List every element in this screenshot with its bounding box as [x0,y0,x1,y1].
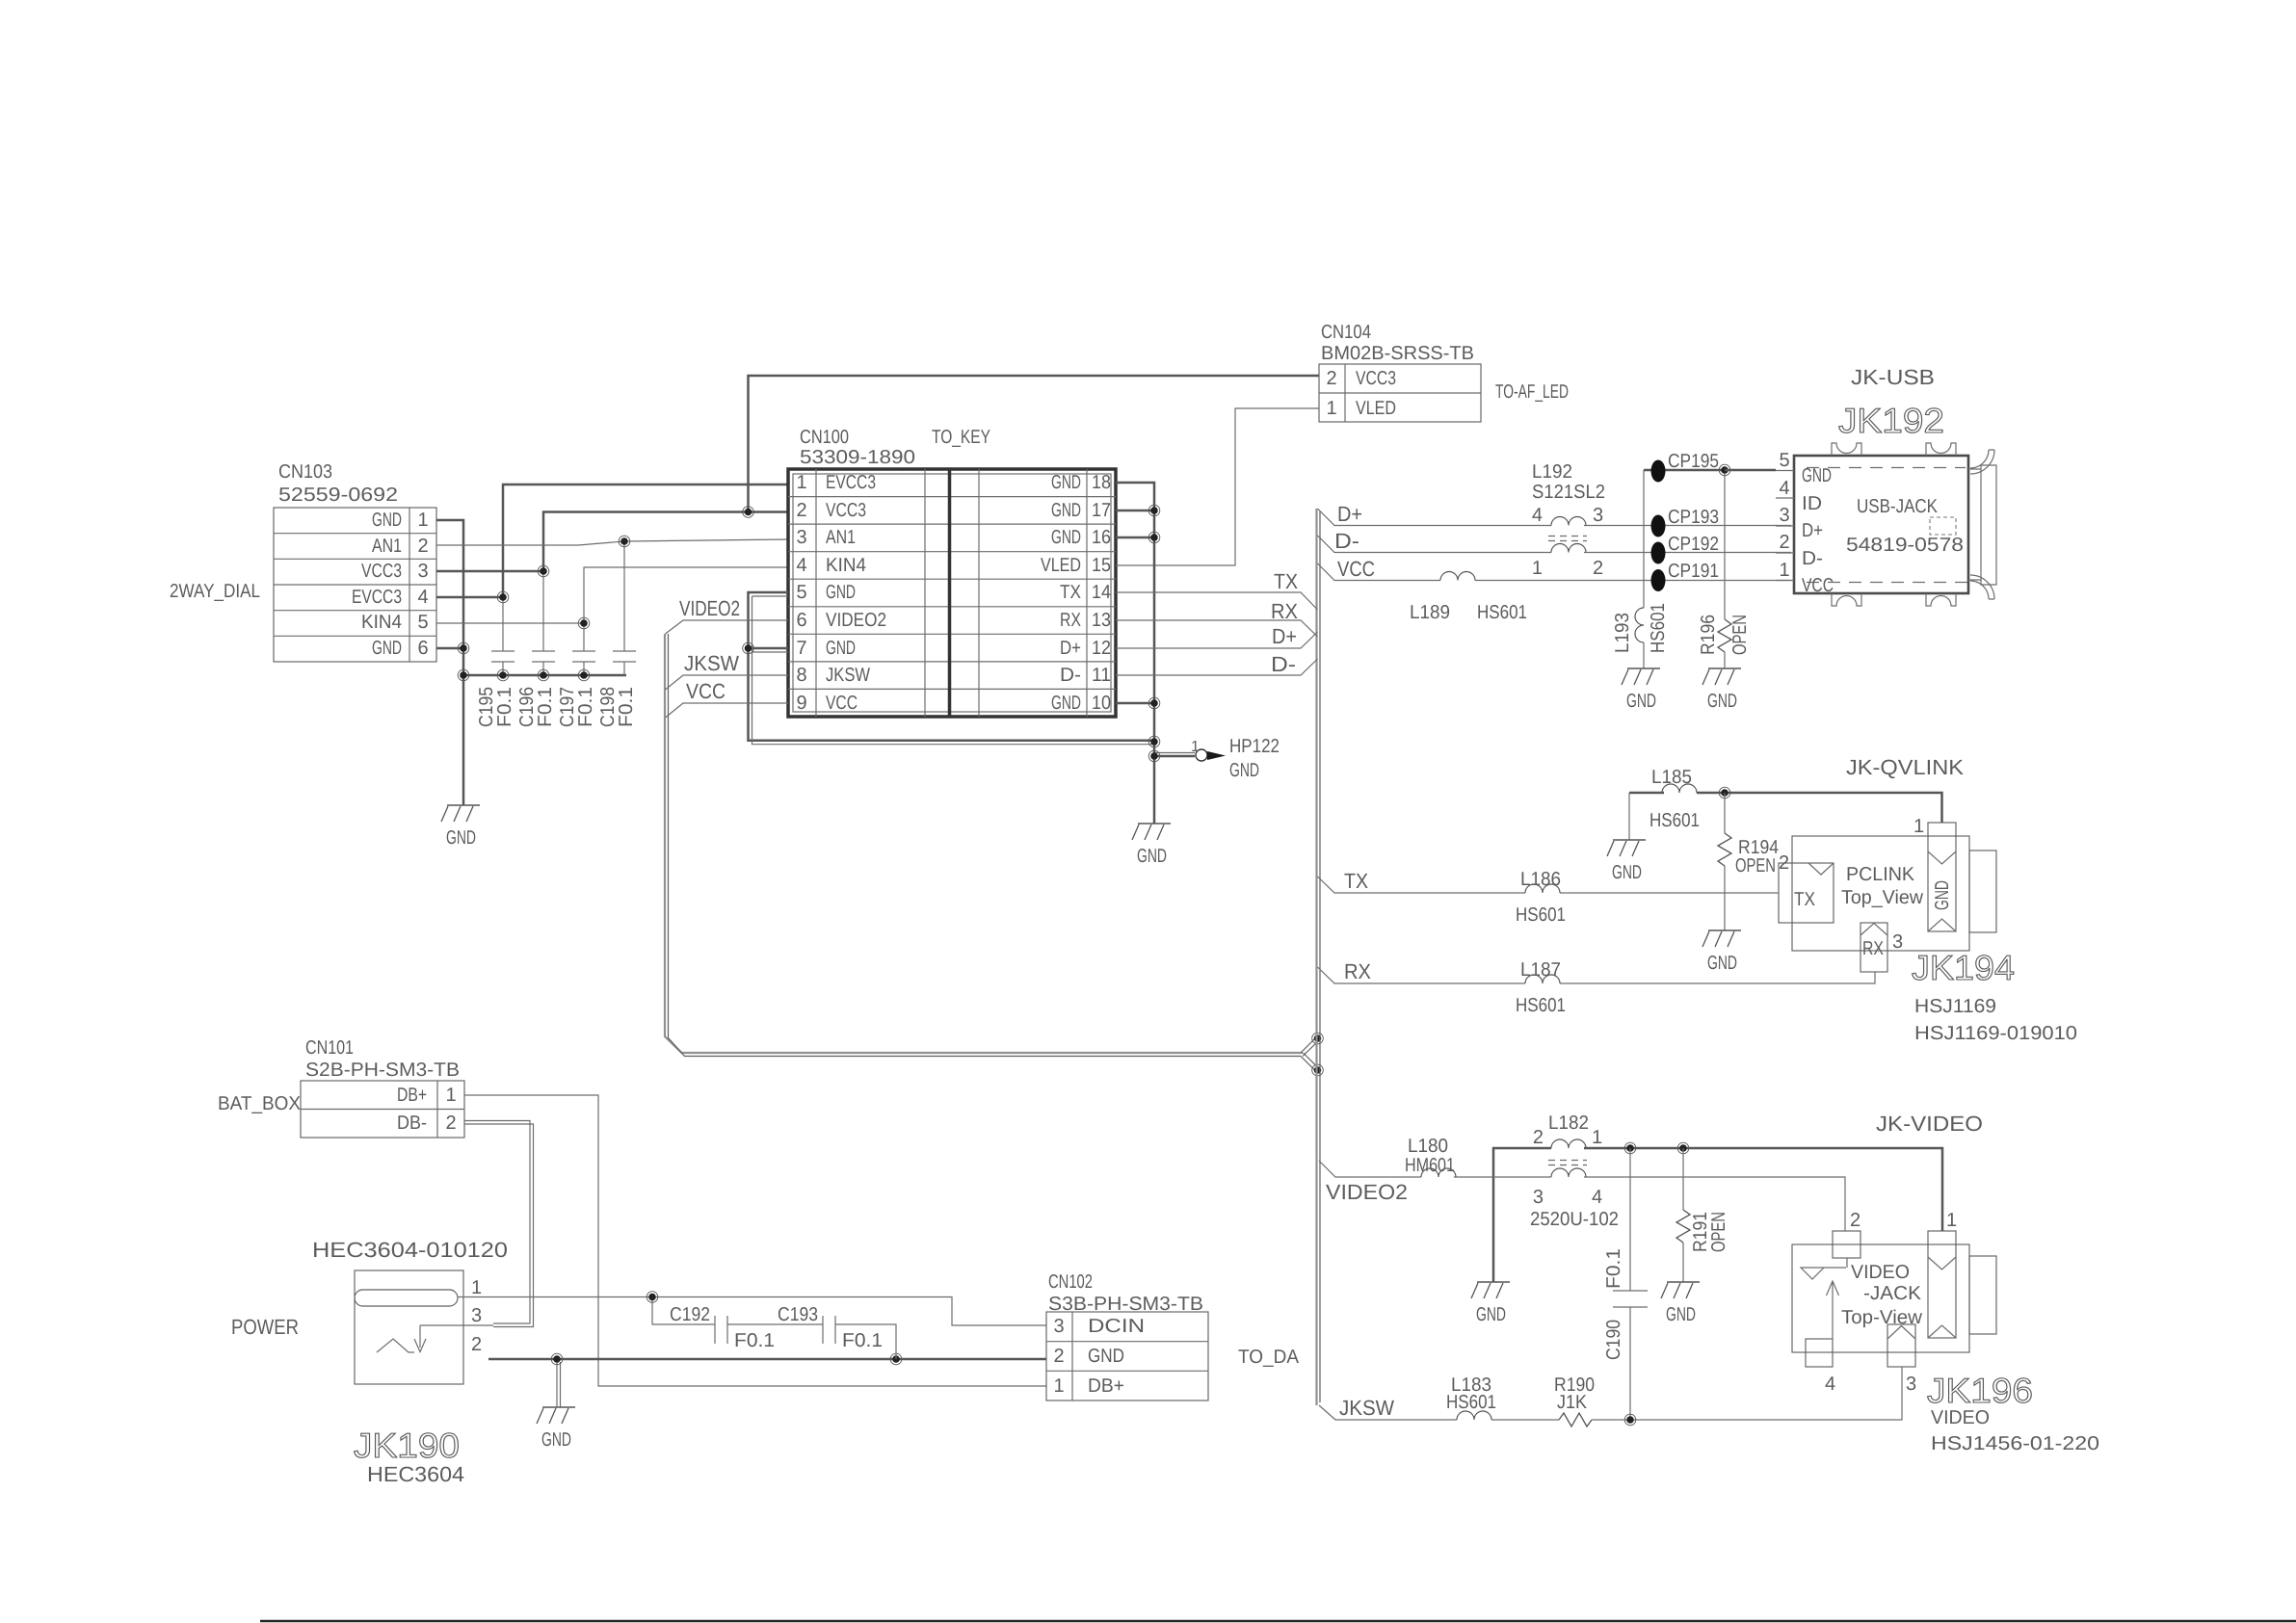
svg-text:VCC3: VCC3 [361,561,402,582]
svg-text:L186: L186 [1520,869,1561,890]
svg-text:CN103: CN103 [278,461,332,483]
svg-text:2: 2 [1326,368,1336,389]
svg-text:2: 2 [445,1113,456,1134]
svg-text:HSJ1169-019010: HSJ1169-019010 [1914,1023,2077,1044]
svg-text:VLED: VLED [1356,398,1396,419]
svg-text:3: 3 [471,1305,482,1326]
svg-text:L189: L189 [1410,602,1450,623]
svg-text:53309-1890: 53309-1890 [800,447,915,468]
svg-text:1: 1 [1592,1127,1602,1148]
wire AN1 CN103.2 to CN100.3 [436,539,788,545]
svg-text:DCIN: DCIN [1088,1316,1145,1337]
junction dots left area [458,536,630,681]
svg-text:C192: C192 [670,1304,710,1325]
svg-text:D+: D+ [1337,502,1362,526]
svg-text:6: 6 [796,610,806,631]
svg-text:3: 3 [1779,505,1789,526]
svg-text:L192: L192 [1532,461,1572,483]
svg-text:HSJ1169: HSJ1169 [1914,996,1996,1017]
svg-text:VCC3: VCC3 [1356,368,1396,389]
inductor L187 HS601 [1516,959,1566,1016]
ground GND below L193 [1622,668,1660,712]
svg-text:1: 1 [1779,560,1789,581]
wire D+ CN100.12 to bus [1116,624,1318,648]
svg-text:1: 1 [1191,739,1200,755]
svg-text:EVCC3: EVCC3 [826,472,876,493]
node JKSW at CN100 pin8 [666,651,789,690]
connector JK190 HEC3604 power jack [231,1238,508,1486]
wire GND loop CN100 pins 5,7 around table bottom [743,592,1160,747]
svg-text:F0.1: F0.1 [494,687,515,727]
svg-text:HEC3604: HEC3604 [367,1462,464,1486]
resistor R194 OPEN [1718,793,1779,930]
connector JK192 USB jack 54819-0578 [1776,365,1996,606]
svg-text:16: 16 [1092,527,1111,548]
svg-text:CN101: CN101 [305,1037,354,1059]
svg-text:L193: L193 [1612,613,1633,653]
svg-text:17: 17 [1092,500,1111,521]
svg-text:HS601: HS601 [1648,603,1669,653]
wire VIDEO2 from bus through L180 and L182 to JK196 pin2 [1319,1161,1845,1231]
svg-text:HS601: HS601 [1516,904,1566,926]
svg-text:VIDEO2: VIDEO2 [1326,1180,1408,1204]
connector CN101 S2B-PH-SM3-TB (BAT_BOX) [218,1037,464,1138]
svg-text:CP192: CP192 [1668,534,1719,555]
svg-text:4: 4 [1779,478,1789,499]
svg-text:HP122: HP122 [1229,736,1280,757]
svg-text:JK-USB: JK-USB [1851,365,1935,389]
connector HP122 GND header pin [1148,736,1280,781]
svg-text:HS601: HS601 [1516,995,1566,1016]
svg-text:8: 8 [796,665,806,686]
ground GND below L182 pin2 wire [1471,1282,1510,1325]
svg-text:1: 1 [796,472,806,493]
svg-text:12: 12 [1092,638,1111,659]
ground GND below R191 [1661,1282,1700,1325]
svg-text:L185: L185 [1651,767,1692,788]
svg-text:BM02B-SRSS-TB: BM02B-SRSS-TB [1321,343,1474,364]
inductor L186 HS601 [1516,869,1566,926]
svg-text:VIDEO: VIDEO [1851,1262,1910,1283]
svg-text:C193: C193 [778,1304,818,1325]
svg-text:TX: TX [1344,869,1368,893]
svg-text:JKSW: JKSW [1339,1396,1394,1420]
svg-text:1: 1 [471,1277,482,1298]
wire D+ from bus to L192 pin4 and USB pin3 [1318,502,1792,526]
feedthrough capacitor bank CP195/CP193/CP192/CP191 [1644,451,1725,608]
svg-text:TO_KEY: TO_KEY [932,427,990,448]
svg-text:54819-0578: 54819-0578 [1846,535,1964,556]
resistor R190 J1K [1554,1374,1595,1427]
svg-text:F0.1: F0.1 [842,1330,883,1351]
svg-text:2WAY_DIAL: 2WAY_DIAL [170,581,260,602]
wire TX from bus through L186 to JK194 TX pin [1318,869,1780,893]
svg-text:-JACK: -JACK [1863,1283,1922,1304]
wire D- CN100.11 to bus [1116,652,1318,676]
svg-text:S121SL2: S121SL2 [1532,482,1605,503]
svg-text:3: 3 [1053,1316,1064,1337]
svg-text:HS601: HS601 [1446,1392,1496,1413]
inductor L193 HS601 (to ground) [1612,603,1669,668]
svg-text:2: 2 [796,500,806,521]
svg-text:11: 11 [1092,665,1111,686]
svg-text:L187: L187 [1520,959,1561,981]
svg-text:Top-View: Top-View [1841,1307,1923,1328]
svg-text:7: 7 [796,638,806,659]
inductor L189 HS601 [1410,572,1527,624]
svg-text:D-: D- [1271,652,1296,676]
svg-text:OPEN: OPEN [1729,615,1751,655]
svg-text:GND: GND [372,638,402,659]
svg-text:GND: GND [1932,880,1953,910]
wire RX from bus through L187 to JK194 RX pin [1318,959,1876,983]
svg-text:VIDEO2: VIDEO2 [679,596,740,620]
svg-text:OPEN: OPEN [1735,855,1776,877]
svg-text:PCLINK: PCLINK [1846,864,1915,885]
svg-text:2: 2 [1779,532,1789,553]
svg-text:BAT_BOX: BAT_BOX [218,1093,301,1114]
wire bus bundle from CN100 left pins to right bus [665,509,1323,1405]
svg-text:4: 4 [796,555,806,576]
inductor L185 HS601 [1649,767,1700,831]
svg-text:JK-VIDEO: JK-VIDEO [1876,1112,1983,1136]
svg-text:2: 2 [1533,1127,1544,1148]
svg-text:VCC: VCC [1337,557,1375,581]
svg-text:JK-QVLINK: JK-QVLINK [1846,755,1964,779]
svg-text:2: 2 [1779,852,1789,874]
svg-text:3: 3 [1533,1187,1544,1208]
svg-text:F0.1: F0.1 [734,1330,775,1351]
svg-text:D-: D- [1802,548,1823,569]
wire D- from bus to L192 pin1 and USB pin2 [1318,529,1792,553]
svg-text:5: 5 [1779,450,1789,471]
wire JKSW from bus through L183 and R190 to JK196 pin3 [1319,1367,1902,1426]
svg-text:JKSW: JKSW [684,651,739,675]
wire VLED CN100.15 to CN104 pin1 [1116,408,1319,565]
ground GND below L185 [1607,840,1646,883]
capacitor C198 F0.1 [597,541,637,727]
svg-text:D+: D+ [1060,638,1081,659]
svg-text:GND: GND [826,638,856,659]
svg-text:1: 1 [1946,1210,1957,1231]
svg-text:4: 4 [1825,1374,1835,1395]
node VCC at CN100 pin9 [666,679,789,718]
svg-text:USB-JACK: USB-JACK [1857,496,1939,517]
svg-text:F0.1: F0.1 [616,687,637,727]
svg-text:TO_DA: TO_DA [1238,1347,1300,1368]
wire TX CN100.14 to bus [1116,569,1318,610]
wire RX CN100.13 to bus [1116,599,1318,637]
svg-text:4: 4 [417,587,428,608]
svg-text:VCC: VCC [1802,575,1834,596]
wire DB+ CN101.1 to CN102.1 [464,1095,1046,1386]
svg-text:3: 3 [1906,1374,1916,1395]
svg-text:15: 15 [1092,555,1111,576]
svg-text:KIN4: KIN4 [826,555,866,576]
svg-text:HEC3604-010120: HEC3604-010120 [312,1238,508,1262]
common-mode choke L192 S121SL2 [1532,461,1605,579]
svg-text:D-: D- [1334,529,1359,553]
inductor L180 HM601 [1405,1136,1456,1177]
svg-text:VCC3: VCC3 [826,500,866,521]
connector JK196 video jack HSJ1456-01-220 [1792,1112,2099,1454]
svg-text:R196: R196 [1698,615,1719,655]
svg-text:2: 2 [1850,1210,1861,1231]
ground GND below power rail [537,1407,575,1451]
svg-text:HS601: HS601 [1649,810,1700,831]
svg-text:D-: D- [1060,665,1081,686]
svg-text:JKSW: JKSW [826,665,870,686]
svg-text:DB-: DB- [397,1113,427,1134]
svg-text:RX: RX [1344,959,1371,983]
resistor R191 OPEN [1676,1148,1729,1282]
wire VCC from bus through L189 to USB pin1 [1318,557,1792,581]
svg-text:TX: TX [1274,569,1298,593]
svg-text:CP193: CP193 [1668,507,1719,528]
svg-text:2: 2 [1593,558,1603,579]
svg-text:52559-0692: 52559-0692 [278,484,398,506]
svg-text:9: 9 [796,693,806,714]
svg-text:5: 5 [796,582,806,603]
ground GND below R194 [1702,930,1741,974]
svg-text:RX: RX [1271,599,1298,623]
connector CN103 52559-0692 (2WAY_DIAL) [170,461,436,662]
svg-text:4: 4 [1532,505,1543,526]
bottom scan border line [260,1620,2296,1623]
svg-text:GND: GND [826,582,856,603]
svg-text:F0.1: F0.1 [535,687,556,727]
svg-text:VIDEO2: VIDEO2 [826,610,886,631]
svg-text:GND: GND [1051,500,1081,521]
svg-text:CN104: CN104 [1321,322,1371,343]
transformer L182 2520U-102 [1530,1113,1619,1230]
svg-text:1: 1 [1913,816,1924,837]
svg-text:D+: D+ [1272,624,1297,648]
svg-text:TX: TX [1060,582,1081,603]
svg-text:L182: L182 [1548,1113,1589,1134]
capacitor C190 F0.1 [1603,1148,1648,1420]
ground GND below R196 [1702,668,1741,712]
svg-text:1: 1 [417,510,428,531]
svg-text:10: 10 [1092,693,1111,714]
wire JK194 pin1 net with L185 and R194 [1629,787,1942,840]
svg-text:3: 3 [417,561,428,582]
capacitor C196 F0.1 [516,571,556,727]
svg-text:EVCC3: EVCC3 [352,587,402,608]
svg-text:GND: GND [1088,1346,1124,1367]
capacitor C192 F0.1 [647,1292,823,1351]
svg-text:GND: GND [372,510,402,531]
svg-text:3: 3 [1892,931,1903,953]
wire KIN4 CN103.5 to CN100.4 [436,567,788,623]
ground GND below CN100 [1132,824,1171,867]
svg-text:D+: D+ [1802,520,1823,541]
svg-text:KIN4: KIN4 [361,612,402,633]
svg-text:1: 1 [1326,398,1336,419]
svg-text:AN1: AN1 [826,527,856,548]
svg-text:13: 13 [1092,610,1111,631]
wire DB- CN101.2 to JK190 pin3 (double line) [463,1121,534,1327]
wire thick JK-VIDEO net from L182 pin1 to JK196 pin1 [1493,1142,1942,1282]
svg-text:4: 4 [1592,1187,1602,1208]
svg-text:F0.1: F0.1 [575,687,596,727]
connector CN100 53309-1890 (TO_KEY) [788,427,1116,717]
wire DCIN from JK190 pin1 to CN102.3 [458,1297,1046,1326]
connector CN102 S3B-PH-SM3-TB (TO_DA) [1046,1271,1300,1400]
svg-text:VLED: VLED [1041,555,1081,576]
svg-text:JK190: JK190 [354,1426,460,1465]
svg-text:AN1: AN1 [372,536,402,557]
node VIDEO2 at CN100 pin6 [666,596,789,634]
svg-text:CP195: CP195 [1668,451,1719,472]
svg-text:2520U-102: 2520U-102 [1530,1209,1619,1230]
svg-text:1: 1 [1053,1375,1064,1397]
svg-text:CN100: CN100 [800,427,849,448]
svg-text:6: 6 [417,638,428,659]
svg-text:C190: C190 [1603,1320,1624,1360]
svg-text:CP191: CP191 [1668,561,1719,582]
svg-text:OPEN: OPEN [1708,1212,1729,1252]
svg-text:RX: RX [1862,938,1884,959]
svg-text:HM601: HM601 [1405,1155,1455,1176]
svg-text:1: 1 [445,1085,456,1106]
connector CN104 BM02B-SRSS-TB (TO-AF_LED) [1319,322,1569,422]
svg-text:HS601: HS601 [1477,602,1527,623]
svg-text:JK194: JK194 [1912,948,2015,987]
svg-text:HSJ1456-01-220: HSJ1456-01-220 [1931,1433,2099,1454]
wire EVCC3 CN103.4 to CN100.1 [436,484,788,597]
svg-text:F0.1: F0.1 [1603,1248,1624,1289]
svg-text:JK192: JK192 [1838,401,1944,440]
svg-text:J1K: J1K [1557,1392,1588,1413]
svg-text:TX: TX [1794,889,1815,910]
svg-text:2: 2 [417,536,428,557]
svg-text:2: 2 [471,1334,482,1355]
svg-text:RX: RX [1060,610,1081,631]
svg-text:DB+: DB+ [1088,1375,1124,1397]
svg-text:GND: GND [1051,693,1081,714]
inductor L183 HS601 [1446,1374,1496,1420]
capacitor C197 F0.1 [557,623,596,727]
svg-text:2: 2 [1053,1346,1064,1367]
svg-text:3: 3 [1593,505,1603,526]
capacitor C193 F0.1 [778,1304,896,1359]
resistor R196 OPEN [1698,464,1751,668]
svg-text:ID: ID [1802,493,1822,514]
svg-text:JK196: JK196 [1927,1371,2033,1410]
svg-text:GND: GND [1051,472,1081,493]
svg-text:1: 1 [1532,558,1543,579]
wire GND USB pin5 [1725,469,1776,472]
svg-text:VCC: VCC [826,693,858,714]
svg-text:CN102: CN102 [1048,1271,1093,1293]
svg-text:TO-AF_LED: TO-AF_LED [1495,381,1569,403]
svg-text:GND: GND [1051,527,1081,548]
wire GND thick from JK190 pin2 to CN102.2 [488,1353,1046,1407]
svg-text:L180: L180 [1408,1136,1448,1157]
wire VCC3 from CN104 pin2 down to CN100 pin2 [749,376,1320,512]
svg-text:S2B-PH-SM3-TB: S2B-PH-SM3-TB [305,1060,460,1081]
svg-text:VIDEO: VIDEO [1931,1407,1990,1428]
wire GND right side of CN100 (pins 18,17,16,10) [1116,483,1160,824]
ground GND below CN103 [441,805,480,849]
svg-text:DB+: DB+ [397,1085,427,1106]
svg-text:3: 3 [796,527,806,548]
wire GND net from CN103 pins 1 and 6 [436,520,626,805]
svg-text:14: 14 [1092,582,1111,603]
svg-text:VCC: VCC [686,679,726,703]
svg-text:POWER: POWER [231,1315,299,1339]
capacitor C195 F0.1 [476,597,515,727]
connector JK194 PCLINK jack HSJ1169 [1779,755,2077,1044]
svg-text:18: 18 [1092,472,1111,493]
svg-text:GND: GND [1229,760,1259,781]
svg-text:Top_View: Top_View [1841,887,1924,908]
svg-text:5: 5 [417,612,428,633]
wire VCC3 CN103.3 to CN100.2 [436,512,788,572]
svg-text:GND: GND [1802,465,1832,486]
